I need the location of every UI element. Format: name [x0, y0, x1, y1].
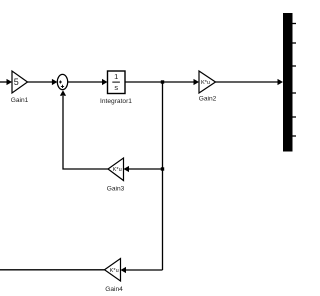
gain Gain4 (left pointing)	[105, 259, 121, 282]
svg-text:Gain3: Gain3	[107, 186, 125, 193]
port stub 5	[293, 116, 297, 118]
svg-text:K*u: K*u	[110, 268, 119, 274]
wire Gain1 to Sum	[28, 81, 54, 83]
wire feedback corner to Gain4 input	[126, 269, 163, 271]
fraction bar	[112, 81, 120, 83]
svg-text:Gain2: Gain2	[199, 96, 217, 103]
svg-text:Gain4: Gain4	[105, 286, 123, 293]
wire input to Gain1	[0, 81, 8, 83]
port stub 3	[293, 65, 297, 67]
wire Integrator1 to Gain2	[125, 81, 194, 83]
wire Gain2 to Mux bar	[216, 81, 279, 83]
wire Gain4 output to left edge	[0, 269, 105, 271]
junction node at (162.5,169)	[161, 167, 164, 170]
wire Sum to Integrator1	[68, 81, 103, 83]
port stub 2	[293, 42, 297, 44]
port stub 6	[293, 135, 297, 137]
gain Gain1	[12, 71, 28, 93]
wire junction to Gain3 input	[129, 168, 163, 170]
integrator Integrator1	[108, 71, 126, 94]
gain Gain2	[199, 71, 216, 93]
junction node at (162.5,82)	[161, 80, 164, 83]
svg-text:K*u: K*u	[113, 167, 122, 173]
wire feedback vertical from junction down to Gain4 row	[162, 82, 164, 270]
svg-text:Gain1: Gain1	[11, 97, 29, 104]
svg-text:K*u: K*u	[201, 80, 210, 86]
port stub 4	[293, 92, 297, 94]
wire Gain3 output to Sum bottom input	[63, 96, 108, 169]
svg-text:s: s	[114, 83, 118, 92]
plus sign bottom input	[61, 85, 64, 88]
summing junction Sum	[57, 74, 67, 89]
port stub 1	[293, 23, 297, 25]
svg-text:1: 1	[114, 72, 118, 81]
svg-text:5: 5	[14, 77, 19, 87]
svg-text:Integrator1: Integrator1	[100, 98, 132, 105]
mux bar	[283, 13, 293, 152]
plus sign left input	[59, 81, 62, 84]
gain Gain3 (left pointing)	[108, 158, 124, 181]
